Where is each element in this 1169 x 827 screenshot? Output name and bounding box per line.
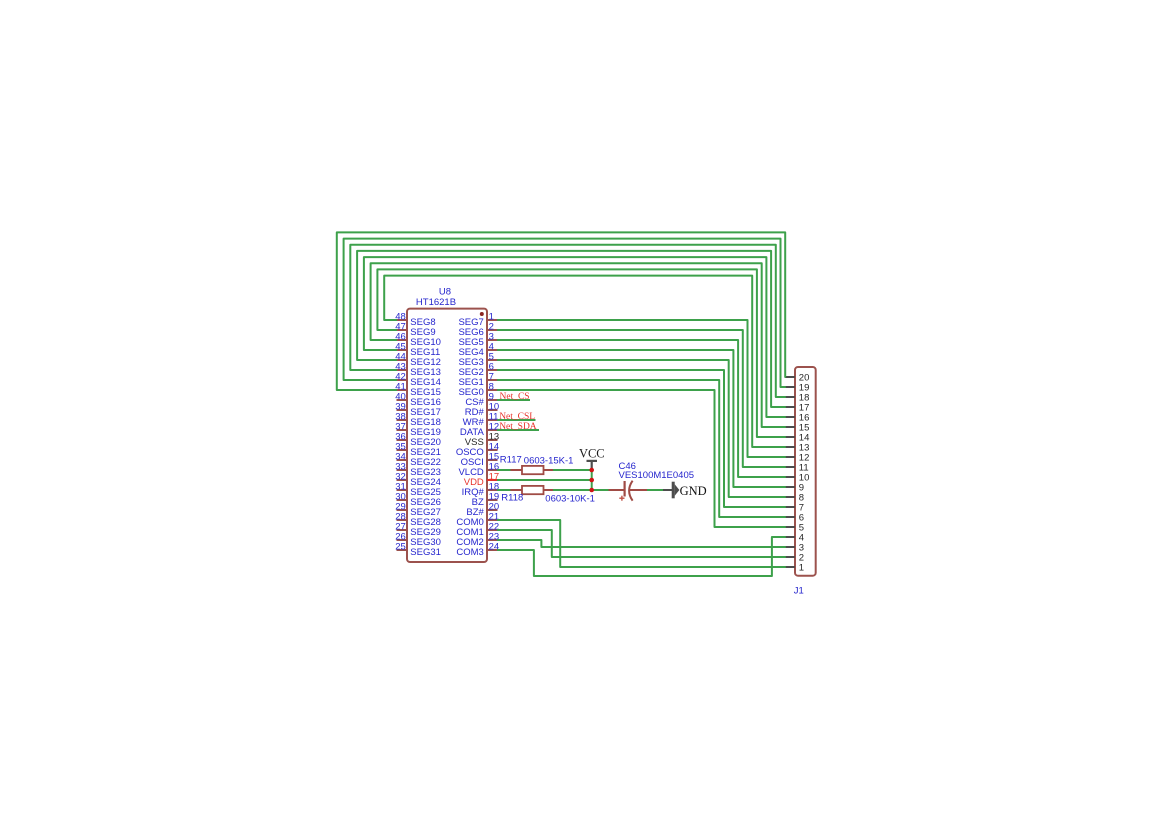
svg-text:R117: R117 xyxy=(500,455,522,466)
J1 pin 13 xyxy=(785,442,809,453)
wire COM2: U8 pin 23 to J1 pin 3 xyxy=(497,540,786,547)
capacitor C46 polarity plus mark xyxy=(619,496,624,501)
power symbol VCC xyxy=(579,447,605,470)
IC U8 HT1621B body xyxy=(407,309,487,562)
U8 pin 26 (SEG30) xyxy=(395,532,441,548)
U8 pin 38 (SEG18) xyxy=(395,412,441,428)
svg-text:1: 1 xyxy=(799,562,804,573)
wire Net_CS from U8 pin 9 xyxy=(497,399,530,401)
svg-text:J1: J1 xyxy=(794,586,804,597)
wire IRQ#: U8 pin 18 to C46 xyxy=(497,489,609,491)
J1 pin 4 xyxy=(785,532,804,543)
wire SEG13: U8 pin 43 to J1 pin 18 xyxy=(350,245,786,397)
J1 pin 5 xyxy=(785,522,804,533)
junction at VDD/VCC node xyxy=(589,478,594,483)
U8 pin 40 (SEG16) xyxy=(395,392,441,408)
J1 pin 14 xyxy=(785,432,809,443)
U8 pin 23 (COM2) xyxy=(456,532,499,548)
wire SEG1: U8 pin 7 to J1 pin 6 xyxy=(497,380,786,517)
svg-text:Net_CSL: Net_CSL xyxy=(499,412,535,422)
U8 pin 36 (SEG20) xyxy=(395,432,441,448)
svg-text:HT1621B: HT1621B xyxy=(416,297,456,308)
svg-text:R118: R118 xyxy=(501,492,523,503)
svg-text:SEG31: SEG31 xyxy=(410,547,441,558)
U8 pin 47 (SEG9) xyxy=(395,322,435,338)
J1 pin 9 xyxy=(785,482,804,493)
U8 pin 34 (SEG22) xyxy=(395,452,441,468)
svg-text:0603-15K-1: 0603-15K-1 xyxy=(524,455,574,466)
U8 pin 7 (SEG1) xyxy=(458,372,497,388)
resistor R117 leads xyxy=(511,469,524,471)
U8 pin 2 (SEG6) xyxy=(458,322,497,338)
junction at IRQ#/VCC node xyxy=(589,488,594,493)
resistor R117 body xyxy=(522,466,544,474)
U8 pin 5 (SEG3) xyxy=(458,352,497,368)
J1 pin 1 xyxy=(785,562,804,573)
wire SEG12: U8 pin 44 to J1 pin 17 xyxy=(357,251,786,407)
U8 pin 29 (SEG27) xyxy=(395,502,441,518)
wire SEG3: U8 pin 5 to J1 pin 8 xyxy=(497,360,786,497)
U8 pin 35 (SEG21) xyxy=(395,442,441,458)
connector J1 body xyxy=(795,367,816,576)
capacitor C46 left lead xyxy=(609,489,624,491)
wire SEG5: U8 pin 3 to J1 pin 10 xyxy=(497,340,786,477)
capacitor C46 right lead xyxy=(630,489,647,491)
wire SEG2: U8 pin 6 to J1 pin 7 xyxy=(497,370,786,507)
wire SEG9: U8 pin 47 to J1 pin 14 xyxy=(377,269,785,437)
U8 pin 27 (SEG29) xyxy=(395,522,441,538)
U8 pin 9 (CS#) xyxy=(465,392,497,408)
J1 pin 7 xyxy=(785,502,804,513)
U8 pin 48 (SEG8) xyxy=(395,312,435,328)
wire SEG4: U8 pin 4 to J1 pin 9 xyxy=(497,350,786,487)
wire COM1: U8 pin 22 to J1 pin 2 xyxy=(497,530,786,557)
U8 pin 11 (WR#) xyxy=(463,412,499,428)
J1 pin 18 xyxy=(785,392,809,403)
svg-text:25: 25 xyxy=(395,542,406,553)
wire VDD: U8 pin 17 to VCC node xyxy=(497,479,592,481)
U8 pin 32 (SEG24) xyxy=(395,472,441,488)
J1 pin 17 xyxy=(785,402,809,413)
wire SEG7: U8 pin 1 to J1 pin 12 xyxy=(497,320,786,457)
wire COM0: U8 pin 21 to J1 pin 1 xyxy=(497,520,786,567)
U8 pin 3 (SEG5) xyxy=(458,332,497,348)
J1 pin 20 xyxy=(785,372,809,383)
svg-text:COM3: COM3 xyxy=(456,547,483,558)
ground symbol GND xyxy=(663,482,707,499)
J1 pin 16 xyxy=(785,412,809,423)
J1 pin 3 xyxy=(785,542,804,553)
U8 pin 25 (SEG31) xyxy=(395,542,441,558)
wire VCC vertical bus xyxy=(591,470,593,490)
J1 pin 11 xyxy=(785,462,808,473)
svg-text:VCC: VCC xyxy=(579,447,605,461)
U8 pin 45 (SEG11) xyxy=(395,342,440,358)
U8 pin 31 (SEG25) xyxy=(395,482,441,498)
U8 pin 4 (SEG4) xyxy=(458,342,497,358)
wire SEG0: U8 pin 8 to J1 pin 5 xyxy=(497,390,786,527)
U8 pin 30 (SEG26) xyxy=(395,492,441,508)
J1 pin 12 xyxy=(785,452,809,463)
junction at VLCD/VCC node xyxy=(589,468,594,473)
U8 pin 21 (COM0) xyxy=(456,512,499,528)
J1 pin 19 xyxy=(785,382,809,393)
resistor R118 body xyxy=(522,486,544,494)
svg-text:VES100M1E0405: VES100M1E0405 xyxy=(619,470,695,481)
capacitor C46 left plate xyxy=(623,481,625,497)
U8 pin 42 (SEG14) xyxy=(395,372,441,388)
svg-text:Net_SDA: Net_SDA xyxy=(499,422,537,432)
U8 pin 17 (VDD) xyxy=(464,472,499,488)
wire COM3: U8 pin 24 to J1 pin 4 xyxy=(497,537,786,576)
U8 pin 24 (COM3) xyxy=(456,542,499,558)
U8 pin 33 (SEG23) xyxy=(395,462,441,478)
svg-text:Net_CS: Net_CS xyxy=(500,392,530,402)
resistor R118 leads xyxy=(511,489,524,491)
wire SEG8: U8 pin 48 to J1 pin 13 xyxy=(384,276,786,447)
U8 pin 1 (SEG7) xyxy=(458,312,497,328)
wire SEG14: U8 pin 42 to J1 pin 19 xyxy=(344,239,786,387)
svg-text:0603-10K-1: 0603-10K-1 xyxy=(545,493,595,504)
U8 pin 12 (DATA) xyxy=(460,422,499,438)
J1 pin 2 xyxy=(785,552,804,563)
J1 pin 10 xyxy=(785,472,809,483)
U8 pin 15 (OSCI) xyxy=(461,452,500,468)
U8 pin 14 (OSCO) xyxy=(456,442,499,458)
wire Net_SDA from U8 pin 12 xyxy=(497,429,539,431)
U8 pin 46 (SEG10) xyxy=(395,332,441,348)
wire SEG6: U8 pin 2 to J1 pin 11 xyxy=(497,330,786,467)
J1 pin 8 xyxy=(785,492,804,503)
U8 pin 43 (SEG13) xyxy=(395,362,441,378)
U8 pin 18 (IRQ#) xyxy=(462,482,500,498)
wire VLCD: U8 pin 16 to VCC node xyxy=(497,469,592,471)
U8 pin 20 (BZ#) xyxy=(466,502,499,518)
U8 pin 8 (SEG0) xyxy=(458,382,497,398)
U8 pin 44 (SEG12) xyxy=(395,352,441,368)
wire SEG11: U8 pin 45 to J1 pin 16 xyxy=(364,257,786,417)
capacitor C46 right plate (curved) xyxy=(629,481,633,501)
U8 pin 6 (SEG2) xyxy=(458,362,497,378)
wire SEG10: U8 pin 46 to J1 pin 15 xyxy=(371,263,786,427)
U8 pin 10 (RD#) xyxy=(465,402,499,418)
U8 pin 37 (SEG19) xyxy=(395,422,441,438)
U8 pin 22 (COM1) xyxy=(456,522,499,538)
J1 pin 15 xyxy=(785,422,809,433)
U8 pin 19 (BZ) xyxy=(472,492,500,508)
wire SEG15: U8 pin 41 to J1 pin 20 xyxy=(337,232,786,390)
svg-text:24: 24 xyxy=(489,542,500,553)
U8 pin 28 (SEG28) xyxy=(395,512,441,528)
U8 pin 1 marker dot xyxy=(480,312,484,316)
U8 pin 13 (VSS) xyxy=(465,432,499,448)
wire C46 to GND xyxy=(647,489,663,491)
J1 pin 6 xyxy=(785,512,804,523)
U8 pin 41 (SEG15) xyxy=(395,382,441,398)
U8 pin 16 (VLCD) xyxy=(458,462,499,478)
U8 pin 39 (SEG17) xyxy=(395,402,441,418)
svg-text:GND: GND xyxy=(680,484,707,498)
wire Net_CSL from U8 pin 11 xyxy=(497,419,536,421)
